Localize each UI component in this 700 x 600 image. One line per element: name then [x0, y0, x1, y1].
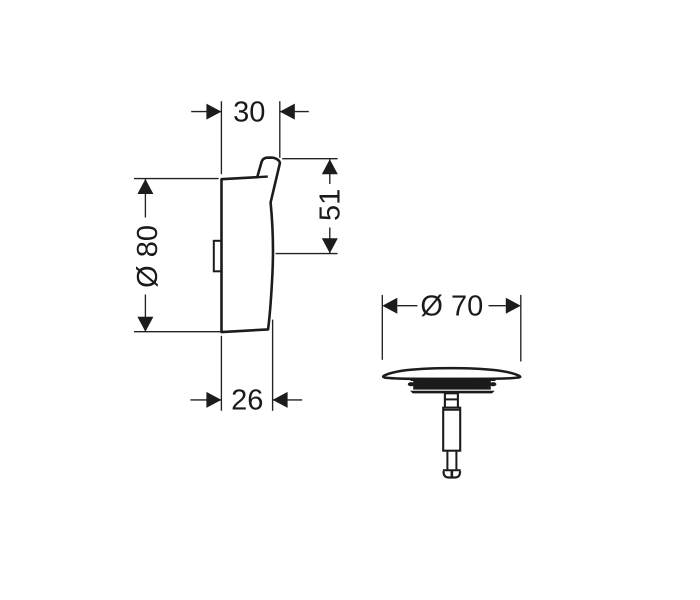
dimension D80 arrows: [137, 179, 153, 332]
stem shoulder line: [443, 409, 460, 411]
stem lower section: [447, 451, 456, 471]
body top edge continuing under lever: [257, 175, 268, 178]
stem middle section: [443, 408, 460, 451]
dimension 26 extension lines: [221, 320, 272, 411]
dimension 26 line tails: [190, 399, 302, 401]
escutcheon body with lever (side view): [222, 158, 280, 333]
dimension 51 extension lines: [276, 159, 338, 254]
dimension D70 extension lines: [382, 295, 521, 362]
dimension 30 line tails: [191, 111, 309, 113]
gasket bottom flange: [410, 391, 495, 394]
svg-text:Ø 70: Ø 70: [420, 291, 483, 323]
gasket top ring: [410, 378, 495, 381]
foot center line: [451, 471, 454, 478]
svg-text:Ø 80: Ø 80: [132, 225, 164, 288]
foot body: [443, 471, 460, 477]
dimension 26 arrows: [206, 392, 287, 408]
gasket right nub: [490, 382, 497, 386]
gasket left nub: [408, 382, 415, 386]
foot top bar: [443, 469, 461, 471]
stem upper section: [445, 393, 458, 407]
dimension D70 line: [397, 305, 506, 307]
dimension D70 arrows: [382, 298, 521, 314]
plug cap (lens profile): [383, 368, 520, 379]
svg-text:30: 30: [233, 96, 265, 128]
dimension 30 extension lines: [221, 101, 279, 174]
gasket main band: [413, 381, 491, 390]
dimension D80 line: [144, 179, 146, 332]
dimension 30 arrows: [206, 104, 294, 120]
svg-text:51: 51: [315, 189, 347, 221]
dimension 51 line: [329, 159, 331, 253]
svg-text:26: 26: [231, 385, 263, 417]
left tab (pipe stub) on escutcheon: [214, 241, 222, 271]
stem upper groove line: [445, 398, 458, 400]
dimension 51 arrows: [322, 159, 338, 253]
dimension D80 extension lines: [134, 179, 221, 332]
